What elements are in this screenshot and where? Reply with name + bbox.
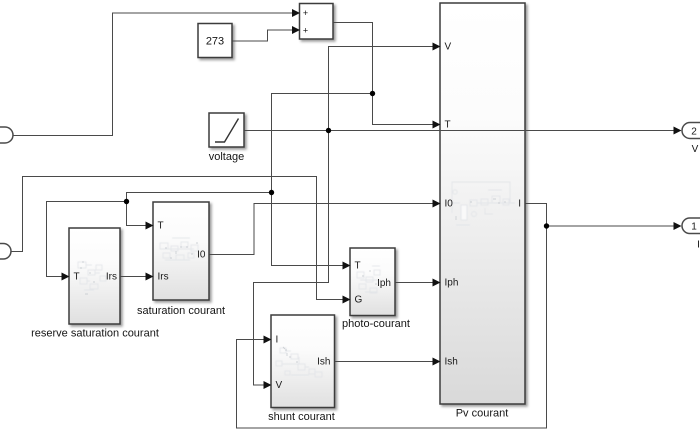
svg-text:T: T xyxy=(158,221,164,232)
svg-text:273: 273 xyxy=(206,36,224,48)
wire T branch to saturation courant T xyxy=(127,193,272,230)
node I1 xyxy=(544,223,549,228)
svg-text:saturation courant: saturation courant xyxy=(137,305,225,317)
subsystem reserve saturation courant xyxy=(31,228,159,340)
subsystem shunt courant xyxy=(268,315,335,423)
svg-text:I: I xyxy=(518,199,521,210)
svg-text:2: 2 xyxy=(691,127,697,138)
svg-text:I: I xyxy=(276,335,279,346)
wire shunt Ish to Pv Ish xyxy=(335,358,441,366)
svg-text:Pv courant: Pv courant xyxy=(456,408,509,420)
svg-text:V: V xyxy=(276,380,283,391)
wire inport1 to sum in1 xyxy=(14,9,301,136)
svg-text:T: T xyxy=(355,261,361,272)
svg-text:voltage: voltage xyxy=(209,151,244,163)
outport 2 V xyxy=(682,123,700,156)
wire voltage to outport V xyxy=(245,127,682,135)
svg-text:Irs: Irs xyxy=(158,272,169,283)
wire photo-courant Iph to Pv Iph xyxy=(396,279,441,287)
svg-text:V: V xyxy=(445,42,452,53)
sum block U1 xyxy=(300,4,334,40)
subsystem Pv courant xyxy=(440,3,525,420)
wire reserve Irs to saturation Irs xyxy=(121,273,154,281)
wire saturation I0 to Pv I0 xyxy=(210,200,441,255)
node V1 xyxy=(326,128,331,133)
wire sum out to Pv T xyxy=(334,23,441,129)
svg-text:Iph: Iph xyxy=(377,278,391,289)
node T3 xyxy=(124,199,129,204)
svg-text:T: T xyxy=(74,272,80,283)
svg-text:G: G xyxy=(355,295,363,306)
svg-text:I0: I0 xyxy=(197,250,206,261)
svg-text:+: + xyxy=(303,8,308,18)
outport 1 I xyxy=(682,218,700,251)
node T1 xyxy=(370,91,375,96)
inport 2 xyxy=(0,244,11,260)
inport 1 xyxy=(0,127,13,143)
svg-text:Irs: Irs xyxy=(106,272,117,283)
wire inport2 to photo-courant G xyxy=(12,177,351,304)
svg-text:+: + xyxy=(303,26,308,36)
node T2 xyxy=(269,190,274,195)
svg-text:T: T xyxy=(445,120,451,131)
svg-text:Iph: Iph xyxy=(445,278,459,289)
subsystem saturation courant xyxy=(137,202,225,317)
constant 273 xyxy=(198,24,232,58)
svg-text:photo-courant: photo-courant xyxy=(342,318,410,330)
svg-text:Ish: Ish xyxy=(317,357,330,368)
svg-text:reserve saturation courant: reserve saturation courant xyxy=(31,328,159,340)
svg-text:shunt courant: shunt courant xyxy=(268,411,335,423)
wire T branch to reserve saturation courant T xyxy=(47,202,127,281)
subsystem photo-courant xyxy=(342,248,410,330)
svg-text:I0: I0 xyxy=(445,199,454,210)
wire voltage branch to Pv V xyxy=(329,43,441,131)
svg-text:Ish: Ish xyxy=(445,357,458,368)
saturation block voltage xyxy=(209,113,244,163)
wire Pv I to outport I xyxy=(547,222,682,230)
wire T branch to photo-courant T xyxy=(272,94,373,270)
wire Pv I feedback to shunt I xyxy=(237,204,547,429)
wire 273 to sum in2 xyxy=(233,26,301,41)
svg-text:I: I xyxy=(697,240,700,251)
svg-text:1: 1 xyxy=(691,222,697,233)
svg-text:V: V xyxy=(692,144,699,155)
wire voltage branch to shunt V xyxy=(254,131,329,390)
